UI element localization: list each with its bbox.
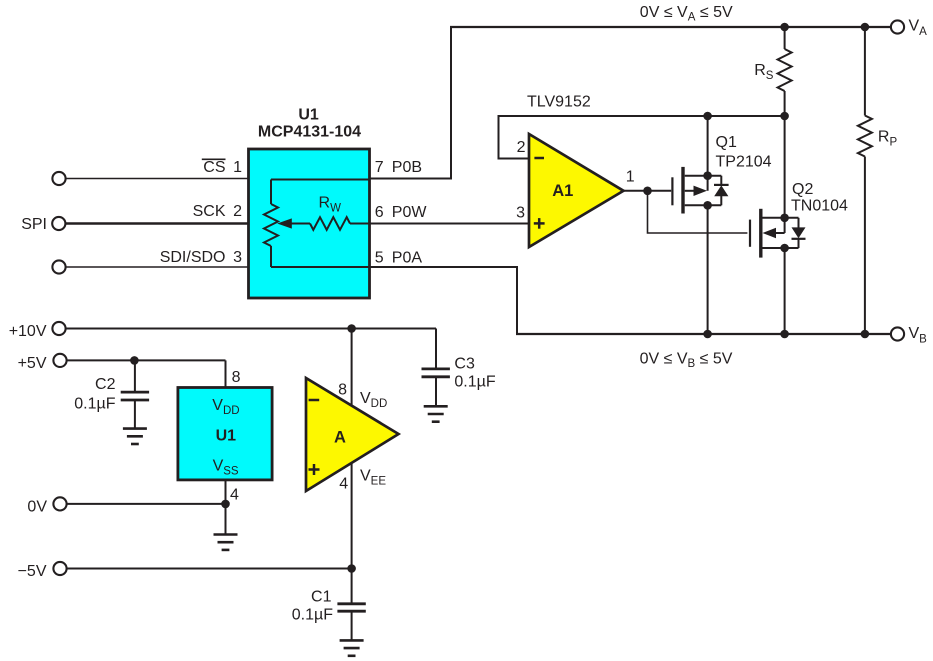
svg-text:0V: 0V: [27, 499, 47, 516]
svg-text:U1: U1: [216, 428, 237, 445]
svg-text:8: 8: [338, 381, 347, 398]
svg-text:VA: VA: [909, 18, 928, 39]
svg-text:7: 7: [375, 159, 384, 176]
svg-text:1: 1: [233, 159, 242, 176]
svg-text:CS: CS: [203, 159, 225, 176]
svg-text:1: 1: [626, 169, 635, 186]
svg-text:A: A: [334, 428, 346, 446]
svg-text:3: 3: [516, 205, 525, 222]
svg-text:0.1µF: 0.1µF: [454, 373, 495, 390]
svg-text:MCP4131-104: MCP4131-104: [258, 124, 361, 141]
svg-text:0.1µF: 0.1µF: [74, 396, 115, 413]
svg-text:SCK: SCK: [193, 203, 226, 220]
svg-text:8: 8: [232, 369, 241, 386]
svg-text:+10V: +10V: [9, 323, 47, 340]
svg-text:U1: U1: [298, 106, 319, 123]
svg-text:+5V: +5V: [18, 355, 47, 372]
svg-text:−5V: −5V: [18, 563, 47, 580]
svg-text:0V ≤ VB ≤ 5V: 0V ≤ VB ≤ 5V: [640, 351, 733, 371]
svg-text:Q2: Q2: [792, 181, 813, 198]
svg-text:C2: C2: [95, 376, 116, 393]
svg-text:VB: VB: [909, 325, 928, 346]
svg-text:Q1: Q1: [716, 134, 737, 151]
svg-text:P0B: P0B: [392, 159, 422, 176]
svg-text:0.1µF: 0.1µF: [292, 607, 333, 624]
svg-text:P0A: P0A: [392, 249, 423, 266]
svg-text:4: 4: [339, 476, 348, 493]
svg-text:P0W: P0W: [392, 204, 428, 221]
svg-text:TN0104: TN0104: [791, 198, 848, 215]
svg-text:2: 2: [233, 203, 242, 220]
svg-text:C1: C1: [311, 588, 332, 605]
svg-text:VDD: VDD: [360, 390, 387, 410]
svg-text:SDI/SDO: SDI/SDO: [160, 249, 226, 266]
svg-text:2: 2: [517, 139, 526, 156]
svg-text:RP: RP: [878, 128, 898, 148]
svg-text:A1: A1: [552, 182, 573, 200]
svg-text:TLV9152: TLV9152: [527, 94, 591, 111]
svg-text:C3: C3: [454, 355, 475, 372]
svg-text:5: 5: [375, 249, 384, 266]
svg-text:SPI: SPI: [21, 216, 47, 233]
svg-text:6: 6: [375, 204, 384, 221]
svg-text:3: 3: [233, 249, 242, 266]
svg-text:TP2104: TP2104: [716, 154, 772, 171]
svg-text:VEE: VEE: [360, 468, 386, 488]
svg-text:0V ≤ VA ≤ 5V: 0V ≤ VA ≤ 5V: [640, 4, 733, 24]
svg-text:4: 4: [230, 487, 239, 504]
svg-text:RS: RS: [754, 62, 774, 82]
